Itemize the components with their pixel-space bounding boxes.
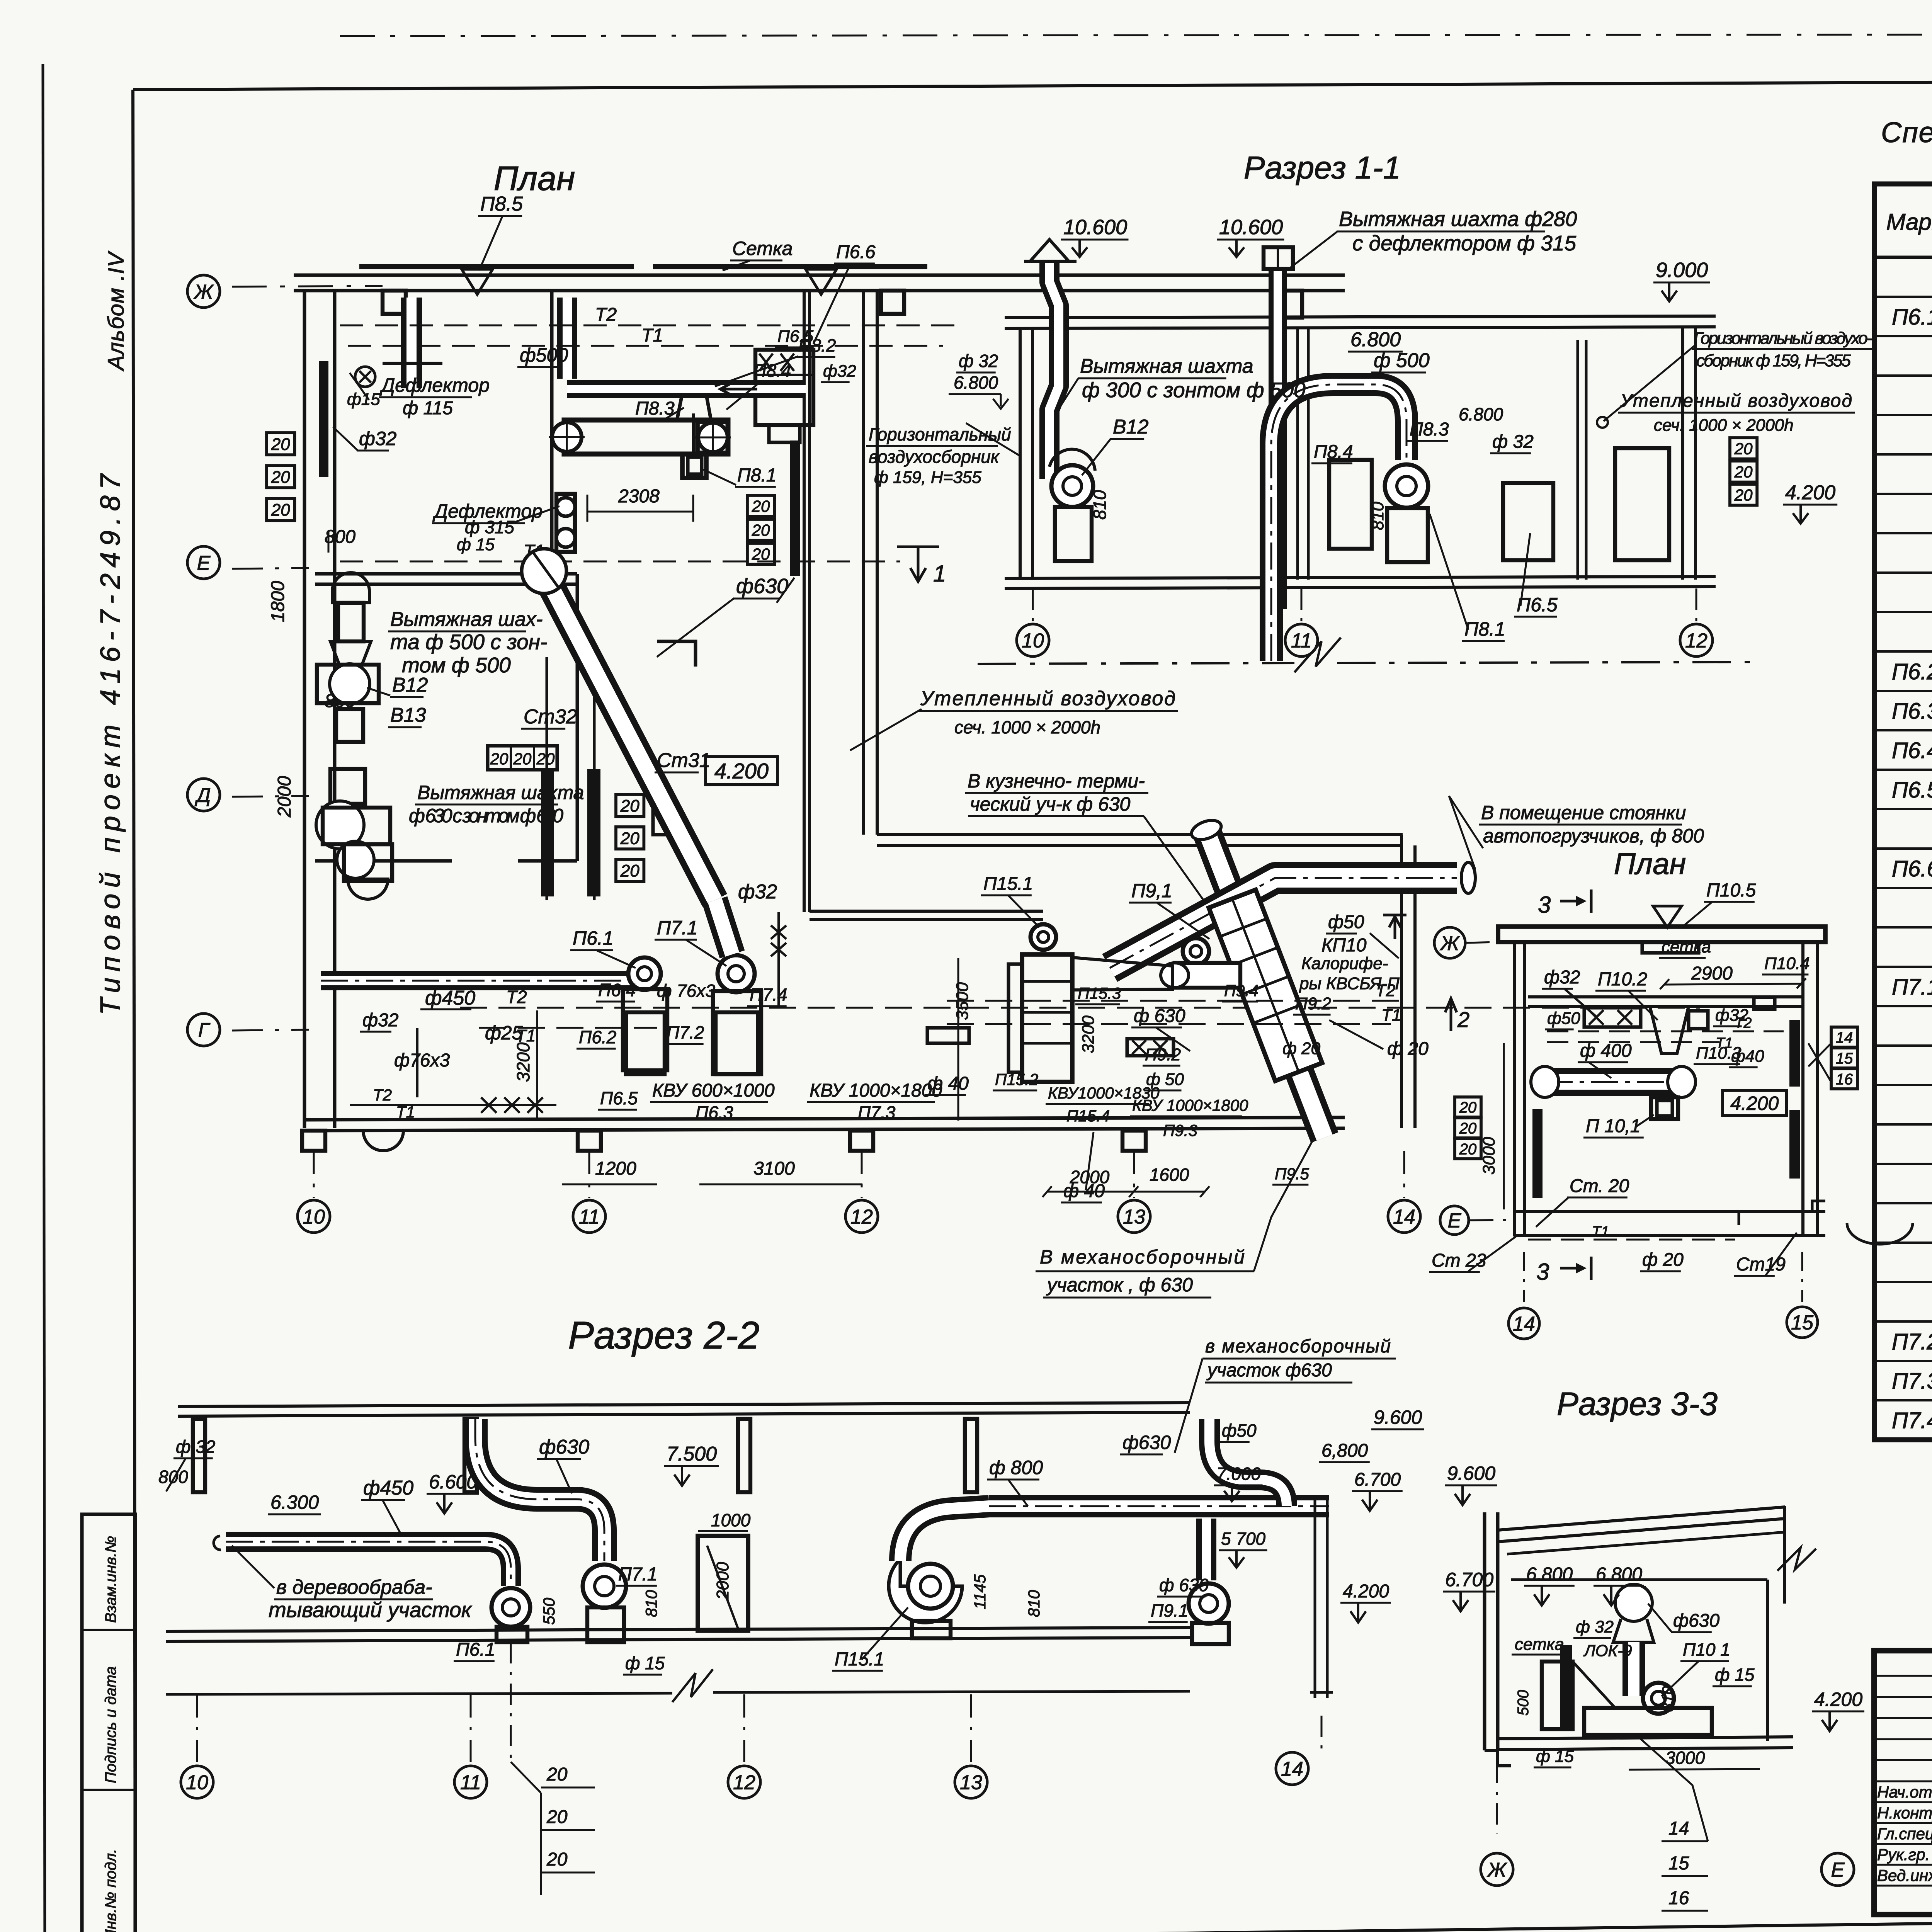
svg-text:Разрез 1-1: Разрез 1-1 <box>1244 150 1401 185</box>
right wall <box>1766 1580 1769 1741</box>
svg-text:ф630: ф630 <box>736 575 788 598</box>
svg-text:Утепленный воздуховод: Утепленный воздуховод <box>1620 391 1852 411</box>
svg-text:П6.1: П6.1 <box>456 1639 495 1660</box>
svg-text:П10.4: П10.4 <box>1764 954 1810 973</box>
kuznechny room top wall <box>877 833 1403 836</box>
valve symbols <box>481 1097 497 1113</box>
svg-text:14: 14 <box>1281 1758 1303 1781</box>
svg-text:20: 20 <box>271 435 290 454</box>
svg-text:Разрез 2-2: Разрез 2-2 <box>568 1314 760 1357</box>
svg-text:6.700: 6.700 <box>1445 1569 1493 1590</box>
svg-text:П8.4: П8.4 <box>753 361 791 381</box>
axis Е line <box>232 568 309 569</box>
svg-text:Т1: Т1 <box>1381 1006 1401 1025</box>
svg-text:ф32: ф32 <box>823 362 856 381</box>
svg-text:Вытяжная шахта ф280: Вытяжная шахта ф280 <box>1339 207 1577 231</box>
svg-text:Вытяжная шахта: Вытяжная шахта <box>417 782 584 803</box>
20 20 20 box horizontal <box>488 746 557 770</box>
svg-text:Горизонтальный: Горизонтальный <box>869 424 1011 444</box>
svg-text:6.800: 6.800 <box>954 372 998 393</box>
walls <box>1019 328 1022 580</box>
svg-text:ф 159, Н=355: ф 159, Н=355 <box>874 468 981 487</box>
svg-text:20: 20 <box>271 500 290 519</box>
top wall parapet details <box>359 264 634 269</box>
svg-text:ф 32: ф 32 <box>959 351 998 371</box>
svg-text:ф 32: ф 32 <box>1492 432 1534 452</box>
П9.2 horizontal heater <box>1175 963 1240 988</box>
svg-text:ф 15: ф 15 <box>457 535 495 554</box>
svg-text:7.500: 7.500 <box>667 1443 717 1465</box>
svg-text:Инв.№ подл.: Инв.№ подл. <box>102 1849 119 1932</box>
svg-text:7.000: 7.000 <box>1216 1464 1261 1484</box>
svg-text:в деревообраба-: в деревообраба- <box>276 1576 432 1599</box>
columns <box>193 1419 205 1492</box>
side walls <box>1513 942 1516 1236</box>
equipment inside <box>1621 1586 1646 1619</box>
svg-text:3: 3 <box>1538 892 1551 918</box>
floor <box>166 1628 1190 1631</box>
svg-text:П7.1: П7.1 <box>657 917 698 939</box>
svg-text:6,800: 6,800 <box>1321 1440 1368 1461</box>
wall pair right of kuznechny <box>1400 835 1403 1128</box>
duct continuing right ф630 <box>989 1495 1082 1517</box>
svg-text:П15.1: П15.1 <box>983 874 1033 894</box>
svg-text:Н.контр: Н.контр <box>1877 1804 1932 1822</box>
svg-text:20: 20 <box>546 1807 568 1827</box>
svg-text:П15.2: П15.2 <box>995 1070 1038 1088</box>
svg-text:П15.4: П15.4 <box>1066 1107 1110 1125</box>
svg-text:в механосборочный: в механосборочный <box>1205 1336 1391 1357</box>
svg-text:П6.2: П6.2 <box>579 1027 616 1047</box>
hatched wall strip <box>319 361 328 477</box>
svg-text:Ст 23: Ст 23 <box>1432 1250 1486 1271</box>
svg-text:В12: В12 <box>1113 416 1149 438</box>
20 stack near corridor <box>747 495 774 517</box>
svg-text:Т1: Т1 <box>641 325 663 346</box>
svg-text:Т2: Т2 <box>506 987 527 1007</box>
dim 2000 1600 <box>1047 1191 1205 1193</box>
svg-text:20: 20 <box>752 545 770 563</box>
svg-text:Вед.инж: Вед.инж <box>1877 1866 1932 1884</box>
hatched insulated shaft <box>790 440 800 576</box>
frame bottom <box>135 1913 1932 1932</box>
svg-text:ф32: ф32 <box>1544 967 1580 988</box>
svg-text:с дефлектором ф 315: с дефлектором ф 315 <box>1352 231 1576 255</box>
svg-text:20: 20 <box>546 1764 568 1785</box>
svg-text:сетка: сетка <box>1662 937 1711 956</box>
ceiling <box>1005 316 1716 318</box>
svg-text:П6.6: П6.6 <box>1892 856 1932 881</box>
svg-text:Вытяжная шахта: Вытяжная шахта <box>1080 355 1253 378</box>
svg-text:Утепленный воздуховод: Утепленный воздуховод <box>920 687 1175 710</box>
svg-text:ф 20: ф 20 <box>1387 1039 1429 1059</box>
svg-text:14: 14 <box>1513 1313 1535 1335</box>
T1 mark between <box>897 547 939 582</box>
top wall <box>294 274 1345 277</box>
svg-text:Т2: Т2 <box>595 304 617 325</box>
svg-text:воздухосборник: воздухосборник <box>869 447 1000 467</box>
pipes and valves lower left <box>416 1028 418 1097</box>
svg-text:П6.2: П6.2 <box>1892 659 1932 684</box>
svg-text:П10.5: П10.5 <box>1706 880 1756 901</box>
П8.1 box <box>682 454 706 478</box>
svg-text:та ф 500 с зон-: та ф 500 с зон- <box>390 630 547 654</box>
svg-text:ф 400: ф 400 <box>1580 1041 1632 1061</box>
fan П15.1 big <box>889 1559 962 1622</box>
axis Г line <box>232 1030 309 1031</box>
svg-text:2: 2 <box>1457 1007 1469 1032</box>
svg-text:4.200: 4.200 <box>1814 1689 1862 1710</box>
svg-text:810: 810 <box>1368 502 1387 530</box>
valve boxes <box>1127 1039 1173 1056</box>
Т1 bottom dashed <box>1528 1239 1735 1241</box>
svg-text:Ж: Ж <box>1439 932 1460 955</box>
svg-text:Ж: Ж <box>193 281 214 303</box>
chimney 2 straight <box>1269 270 1287 609</box>
svg-text:10: 10 <box>303 1206 325 1228</box>
svg-text:автопогрузчиков, ф 800: автопогрузчиков, ф 800 <box>1483 825 1704 847</box>
svg-text:ф450: ф450 <box>425 987 475 1009</box>
svg-text:П15.3: П15.3 <box>1078 984 1121 1002</box>
svg-text:ф 500: ф 500 <box>1374 349 1430 372</box>
svg-text:550: 550 <box>540 1597 558 1625</box>
svg-text:сеч. 1000 × 2000h: сеч. 1000 × 2000h <box>1654 416 1794 435</box>
svg-text:Д: Д <box>195 784 211 807</box>
svg-text:ф 315: ф 315 <box>465 517 514 537</box>
svg-text:6.300: 6.300 <box>270 1492 319 1513</box>
svg-text:Дефлектор: Дефлектор <box>379 374 490 396</box>
Т2 Т1 dashed <box>947 1000 1406 1002</box>
column circles sect22 <box>196 1694 198 1762</box>
Т2 Т1 dashed <box>1547 1031 1784 1032</box>
14 15 16 boxes <box>1831 1027 1857 1047</box>
svg-text:ф630: ф630 <box>1673 1611 1719 1631</box>
duct ф450 horizontal <box>226 1542 511 1586</box>
svg-text:Разрез 3-3: Разрез 3-3 <box>1557 1386 1718 1422</box>
svg-text:Горизонтальный воздухо-: Горизонтальный воздухо- <box>1694 329 1872 348</box>
svg-text:ф40: ф40 <box>1731 1047 1764 1066</box>
svg-text:П8.3: П8.3 <box>1410 419 1449 440</box>
svg-text:В12: В12 <box>392 674 428 696</box>
svg-text:П7.2: П7.2 <box>1892 1329 1932 1354</box>
bottom column circles <box>1523 1252 1525 1302</box>
svg-text:В кузнечно- терми-: В кузнечно- терми- <box>968 770 1145 792</box>
svg-text:КВУ 1000×1800: КВУ 1000×1800 <box>1132 1096 1248 1114</box>
dim 1200 3100 <box>562 1184 657 1185</box>
svg-text:План: План <box>494 159 575 197</box>
svg-text:ф 20: ф 20 <box>1282 1039 1320 1058</box>
svg-text:П9,1: П9,1 <box>1131 880 1172 901</box>
axis Ж <box>1434 927 1465 958</box>
svg-text:В13: В13 <box>390 704 426 726</box>
svg-text:Нач.отд.: Нач.отд. <box>1877 1783 1932 1801</box>
svg-text:Т2: Т2 <box>1376 981 1395 1000</box>
svg-text:4.200: 4.200 <box>1343 1581 1389 1602</box>
2300 dim <box>587 511 693 513</box>
right partition walls of plan rooms <box>550 291 554 574</box>
svg-text:Е: Е <box>1831 1859 1845 1881</box>
svg-text:6.700: 6.700 <box>1354 1469 1401 1490</box>
svg-text:П6.3: П6.3 <box>1892 699 1932 724</box>
lower ground line <box>166 1693 672 1694</box>
svg-text:КП10: КП10 <box>1321 935 1367 956</box>
svg-text:В помещение стоянки: В помещение стоянки <box>1481 802 1686 823</box>
svg-text:П10.2: П10.2 <box>1598 969 1647 990</box>
corridor duct turn <box>810 910 1043 913</box>
funnel marks on top wall <box>462 269 493 294</box>
svg-text:6.800: 6.800 <box>1526 1564 1573 1585</box>
duct to stoyanka ф800 <box>1110 878 1457 968</box>
left wall <box>303 291 306 1128</box>
svg-text:П7.2: П7.2 <box>667 1022 704 1043</box>
svg-text:20: 20 <box>1734 463 1753 481</box>
deflector mid <box>556 494 575 552</box>
floor <box>1005 577 1716 578</box>
svg-text:810: 810 <box>1025 1590 1043 1617</box>
heaters small rects <box>626 1012 665 1074</box>
svg-text:сборник ф 159, Н=355: сборник ф 159, Н=355 <box>1696 351 1851 370</box>
inner wall D <box>315 859 452 863</box>
П8.3 unit korob <box>564 420 728 454</box>
svg-text:20: 20 <box>536 750 555 768</box>
svg-text:6.600: 6.600 <box>429 1471 477 1493</box>
svg-text:12: 12 <box>850 1206 873 1228</box>
svg-text:ф 15: ф 15 <box>625 1653 665 1673</box>
svg-text:ф 76х3: ф 76х3 <box>657 981 715 1001</box>
svg-text:участок ф630: участок ф630 <box>1206 1360 1332 1381</box>
ф500 duct run <box>567 380 806 398</box>
20 stack <box>1455 1097 1481 1117</box>
20 stack sect22 <box>510 1642 512 1762</box>
svg-text:ф 40: ф 40 <box>927 1073 969 1094</box>
svg-text:П6.1: П6.1 <box>573 927 614 949</box>
svg-text:ф 630: ф 630 <box>1134 1006 1185 1026</box>
svg-text:сетка: сетка <box>1515 1635 1564 1654</box>
svg-text:20: 20 <box>1459 1099 1477 1116</box>
svg-text:ф50: ф50 <box>1328 912 1364 932</box>
svg-text:2000: 2000 <box>713 1562 732 1600</box>
top dash-dot paper line <box>340 34 1932 36</box>
svg-text:810: 810 <box>1660 1686 1677 1712</box>
floor <box>1498 1737 1793 1739</box>
svg-text:3: 3 <box>1536 1259 1549 1285</box>
сетка hatched stack <box>1560 1645 1572 1728</box>
svg-text:План: План <box>1614 847 1686 881</box>
svg-text:П7.1: П7.1 <box>618 1564 658 1585</box>
svg-text:4.200: 4.200 <box>1730 1093 1779 1114</box>
П6.1 П7.1 units <box>628 957 661 990</box>
svg-text:20: 20 <box>1734 439 1753 457</box>
exhaust shaft ф630 unit lower <box>330 769 365 804</box>
svg-text:ф 32: ф 32 <box>1576 1617 1614 1636</box>
svg-text:1: 1 <box>933 561 946 587</box>
svg-text:20: 20 <box>490 750 509 768</box>
svg-text:1200: 1200 <box>595 1158 636 1179</box>
svg-text:Ж: Ж <box>1486 1859 1507 1881</box>
svg-text:5 700: 5 700 <box>1221 1529 1266 1549</box>
svg-text:ЛОК-9: ЛОК-9 <box>1583 1641 1632 1660</box>
П8.3 transition funnel <box>677 395 711 420</box>
svg-text:2308: 2308 <box>618 486 660 507</box>
svg-text:10.600: 10.600 <box>1063 216 1127 239</box>
svg-text:16: 16 <box>1668 1888 1689 1908</box>
flow arrow <box>720 383 757 396</box>
paper left edge line <box>43 64 45 1932</box>
svg-text:Марка: Марка <box>1886 209 1932 235</box>
svg-text:П6.6: П6.6 <box>836 242 876 262</box>
svg-text:9.600: 9.600 <box>1374 1406 1422 1428</box>
svg-text:Е: Е <box>1448 1210 1462 1232</box>
svg-text:ф450: ф450 <box>363 1477 413 1499</box>
exhaust shaft ф500 unit <box>332 573 369 603</box>
top roof band <box>1498 927 1825 942</box>
interior: ceiling of room <box>1511 1578 1767 1581</box>
svg-text:810: 810 <box>642 1590 660 1617</box>
diagonal duct to kuznechny ф630 <box>1206 831 1325 1138</box>
svg-text:ф50: ф50 <box>1222 1420 1257 1440</box>
svg-text:12: 12 <box>733 1772 755 1794</box>
svg-text:П8.5: П8.5 <box>480 193 523 215</box>
svg-text:3100: 3100 <box>753 1158 795 1179</box>
svg-text:4.200: 4.200 <box>1785 481 1835 504</box>
svg-text:П 10,1: П 10,1 <box>1586 1116 1641 1136</box>
svg-text:15: 15 <box>1836 1050 1853 1067</box>
svg-text:КВУ 1000×1800: КВУ 1000×1800 <box>810 1080 942 1101</box>
column circles <box>313 1151 315 1198</box>
svg-text:Т1: Т1 <box>1592 1224 1609 1240</box>
svg-text:Альбом .IV: Альбом .IV <box>104 250 129 371</box>
svg-text:20: 20 <box>513 750 532 768</box>
small boxes interior <box>1329 460 1372 549</box>
svg-text:КВУ 600×1000: КВУ 600×1000 <box>652 1080 775 1101</box>
svg-text:В механосборочный: В механосборочный <box>1040 1246 1245 1268</box>
hatched stacks <box>1532 1109 1543 1198</box>
mark 2 arrow <box>1445 998 1457 1031</box>
svg-text:П7.3: П7.3 <box>858 1102 896 1122</box>
svg-text:П6.3: П6.3 <box>696 1102 733 1122</box>
svg-text:ф 15: ф 15 <box>1536 1747 1574 1766</box>
title block <box>1874 1651 1932 1915</box>
svg-text:ф 630 с зонтом ф 630: ф 630 с зонтом ф 630 <box>409 805 563 827</box>
svg-text:Гл.спец.: Гл.спец. <box>1877 1825 1932 1843</box>
svg-text:1600: 1600 <box>1150 1165 1189 1185</box>
chimney 1 with umbrella <box>1049 261 1059 479</box>
svg-text:П7.4: П7.4 <box>1892 1408 1932 1433</box>
svg-text:ф76х3: ф76х3 <box>394 1050 450 1071</box>
svg-text:20: 20 <box>1459 1120 1477 1137</box>
svg-text:П6.4: П6.4 <box>598 980 636 1000</box>
svg-text:1000: 1000 <box>711 1510 751 1530</box>
svg-text:11: 11 <box>460 1772 481 1794</box>
svg-text:П6.5: П6.5 <box>600 1088 638 1108</box>
svg-text:ф 15: ф 15 <box>1715 1665 1755 1685</box>
roof sloped <box>1498 1507 1785 1530</box>
svg-text:20: 20 <box>620 796 639 815</box>
П6.6 air intake unit <box>755 350 813 425</box>
svg-text:ф500: ф500 <box>520 344 568 366</box>
svg-text:Вытяжная шах-: Вытяжная шах- <box>390 608 543 631</box>
svg-text:3000: 3000 <box>1665 1748 1705 1768</box>
svg-text:ф630: ф630 <box>1122 1432 1171 1453</box>
svg-text:2000: 2000 <box>1070 1167 1110 1187</box>
svg-text:10: 10 <box>1022 630 1044 652</box>
svg-text:ф32: ф32 <box>362 1010 399 1031</box>
frame top <box>133 79 1932 90</box>
fan П6.1 <box>492 1588 530 1627</box>
svg-text:500: 500 <box>1515 1690 1532 1716</box>
big diagonal duct ф630 <box>544 573 715 900</box>
T elevation symbol <box>1383 915 1406 939</box>
lower area ducts: ф450 run <box>321 971 657 990</box>
П9 slanted heater unit <box>1209 890 1322 1081</box>
svg-text:3200: 3200 <box>1079 1015 1098 1053</box>
svg-text:ф 32: ф 32 <box>176 1437 215 1457</box>
duct ф630 big <box>475 1419 604 1561</box>
svg-text:15: 15 <box>1791 1312 1814 1334</box>
svg-text:П9.3: П9.3 <box>1163 1121 1197 1139</box>
svg-text:ф 115: ф 115 <box>403 398 453 418</box>
svg-text:П10 1: П10 1 <box>1683 1639 1730 1660</box>
svg-text:14: 14 <box>1668 1818 1689 1839</box>
svg-text:ф 800: ф 800 <box>989 1457 1043 1478</box>
svg-text:810: 810 <box>1090 490 1110 520</box>
svg-text:2900: 2900 <box>1691 963 1733 984</box>
svg-text:Сетка: Сетка <box>732 238 793 259</box>
svg-text:П6.5: П6.5 <box>1517 594 1558 616</box>
svg-text:том ф 500: том ф 500 <box>402 653 511 677</box>
svg-text:ф50: ф50 <box>1547 1009 1580 1028</box>
svg-text:3000: 3000 <box>1480 1137 1498 1175</box>
svg-text:ческий уч-к ф 630: ческий уч-к ф 630 <box>970 793 1131 815</box>
frame left <box>133 90 135 1932</box>
П15 unit <box>1031 924 1056 950</box>
svg-text:П15.1: П15.1 <box>835 1649 884 1670</box>
svg-text:11: 11 <box>579 1206 600 1228</box>
svg-text:Подпись и дата: Подпись и дата <box>102 1666 119 1783</box>
svg-text:П8.1: П8.1 <box>1464 618 1505 640</box>
deflector upper left <box>359 371 371 383</box>
svg-text:Взам.инв.№: Взам.инв.№ <box>102 1536 119 1623</box>
П10.1 box <box>1651 1097 1678 1119</box>
svg-text:6.800: 6.800 <box>1596 1564 1642 1585</box>
bottom wall Г <box>304 1117 1345 1120</box>
door frame <box>698 1536 748 1631</box>
svg-text:20: 20 <box>271 468 290 486</box>
svg-text:20: 20 <box>752 497 770 515</box>
axis Ж line <box>232 286 383 287</box>
svg-text:Ст32: Ст32 <box>524 706 577 728</box>
П8 riser duct <box>557 298 577 379</box>
svg-text:12: 12 <box>1685 630 1708 652</box>
wall stub details mid <box>692 413 695 456</box>
svg-text:20: 20 <box>752 521 770 539</box>
svg-text:Т2: Т2 <box>373 1086 392 1104</box>
svg-text:ф 630: ф 630 <box>1159 1575 1209 1595</box>
20 stack <box>1730 438 1757 459</box>
svg-text:ф32: ф32 <box>359 428 397 449</box>
big curved duct to П8 fan <box>1271 384 1406 661</box>
inner top wall <box>1528 995 1803 998</box>
svg-text:6.800: 6.800 <box>1459 404 1503 424</box>
svg-text:участок , ф 630: участок , ф 630 <box>1046 1274 1193 1296</box>
axis Д line <box>232 796 309 797</box>
svg-text:ф32: ф32 <box>738 881 777 903</box>
column stubs bottom <box>302 1131 325 1151</box>
svg-text:13: 13 <box>960 1772 982 1794</box>
svg-text:14: 14 <box>1836 1029 1853 1046</box>
svg-text:тывающий участок: тывающий участок <box>269 1598 472 1622</box>
svg-text:П7.4: П7.4 <box>750 985 787 1005</box>
